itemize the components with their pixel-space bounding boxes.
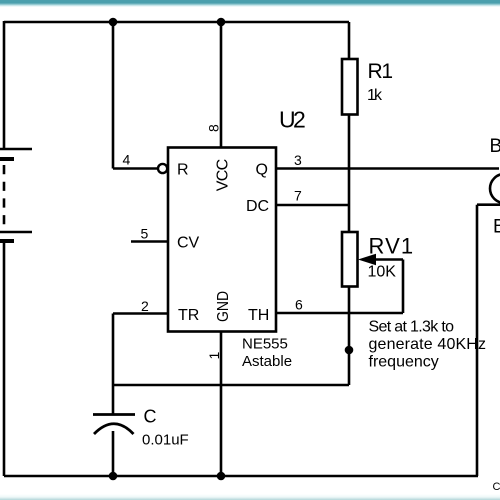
- svg-text:7: 7: [294, 188, 302, 204]
- svg-text:CV: CV: [177, 235, 200, 252]
- svg-text:DC: DC: [246, 198, 269, 215]
- svg-text:R: R: [177, 162, 189, 179]
- svg-text:C: C: [493, 481, 500, 493]
- svg-text:TH: TH: [248, 307, 269, 324]
- svg-text:B: B: [493, 217, 500, 238]
- svg-text:frequency: frequency: [369, 353, 439, 370]
- svg-text:C: C: [144, 407, 157, 427]
- svg-text:10K: 10K: [368, 264, 397, 281]
- svg-text:1: 1: [206, 352, 222, 360]
- svg-text:5: 5: [141, 226, 149, 242]
- svg-text:Q: Q: [256, 162, 268, 179]
- svg-text:RV1: RV1: [369, 234, 414, 259]
- svg-text:TR: TR: [178, 307, 199, 324]
- svg-text:6: 6: [295, 297, 303, 313]
- svg-text:VCC: VCC: [215, 159, 232, 192]
- svg-text:3: 3: [294, 152, 302, 168]
- svg-text:2: 2: [141, 298, 149, 314]
- svg-text:8: 8: [206, 124, 222, 132]
- svg-text:B: B: [490, 136, 500, 157]
- svg-text:0.01uF: 0.01uF: [142, 432, 189, 449]
- svg-text:1k: 1k: [367, 87, 383, 104]
- svg-text:R1: R1: [368, 60, 394, 83]
- svg-text:NE555: NE555: [242, 336, 288, 353]
- svg-text:U2: U2: [279, 107, 306, 133]
- svg-text:GND: GND: [214, 291, 232, 322]
- svg-text:Astable: Astable: [242, 353, 292, 370]
- svg-text:generate 40KHz: generate 40KHz: [369, 336, 487, 353]
- svg-text:4: 4: [123, 152, 131, 168]
- svg-text:Set at 1.3k to: Set at 1.3k to: [369, 319, 455, 336]
